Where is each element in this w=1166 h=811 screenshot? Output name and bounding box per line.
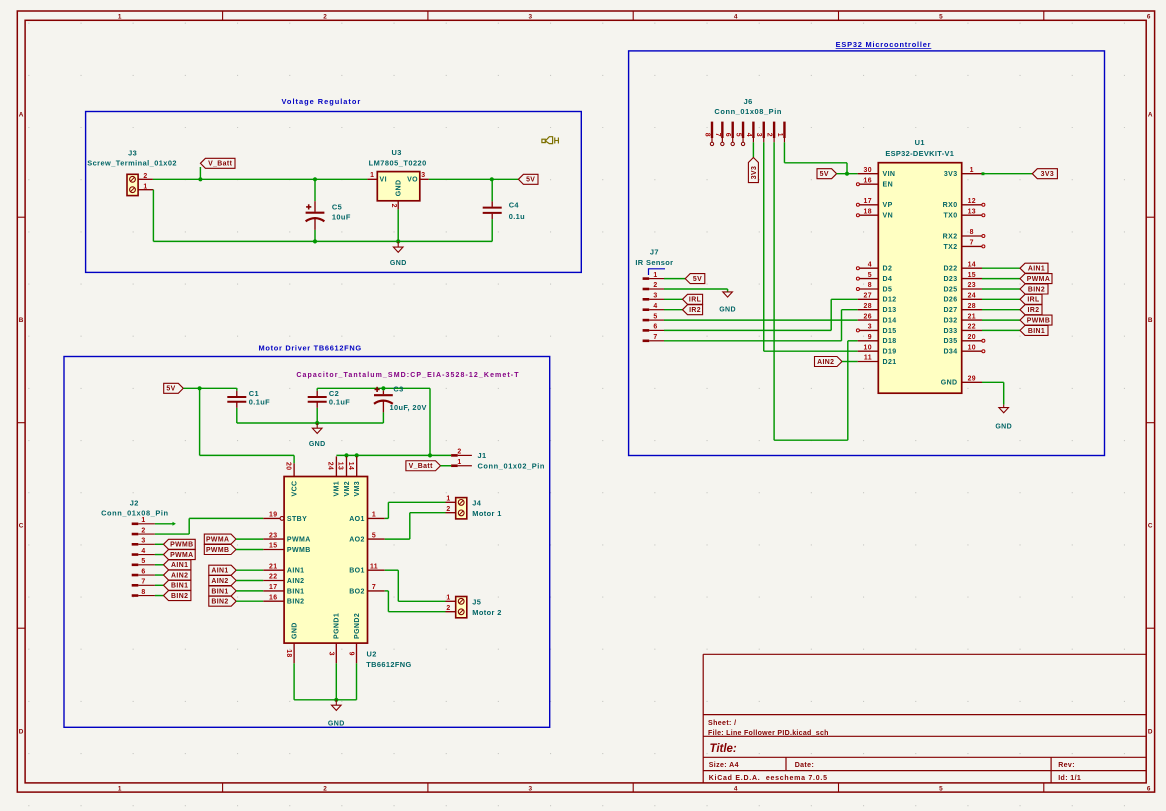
wire VM rail <box>336 454 430 456</box>
wire J7 pin6 to D12 <box>664 299 858 330</box>
svg-text:6: 6 <box>653 324 657 331</box>
svg-text:3V3: 3V3 <box>1041 171 1054 178</box>
svg-text:KiCad E.D.A. eeschema 7.0.5: KiCad E.D.A. eeschema 7.0.5 <box>709 775 828 782</box>
svg-text:Conn_01x08_Pin: Conn_01x08_Pin <box>101 509 169 518</box>
svg-text:2: 2 <box>323 13 327 20</box>
svg-text:TB6612FNG: TB6612FNG <box>366 660 412 669</box>
svg-text:28: 28 <box>864 303 872 310</box>
svg-text:2: 2 <box>141 527 145 534</box>
svg-text:14: 14 <box>347 462 354 470</box>
svg-text:J2: J2 <box>130 498 139 507</box>
svg-text:BIN1: BIN1 <box>287 588 305 595</box>
wire J2 pin3 <box>155 543 164 545</box>
wire AO1 to J4 pin1 <box>385 502 446 518</box>
svg-text:4: 4 <box>734 785 738 792</box>
pin 15 D23 U1 <box>943 272 982 283</box>
svg-text:0.1u: 0.1u <box>509 212 525 221</box>
pin 21 AIN1 U2 <box>263 563 304 574</box>
svg-text:ESP32-DEVKIT-V1: ESP32-DEVKIT-V1 <box>885 149 954 158</box>
svg-text:BIN1: BIN1 <box>1028 328 1045 335</box>
svg-text:1: 1 <box>143 183 147 190</box>
global label AIN1 <box>1020 263 1048 273</box>
svg-text:5: 5 <box>868 272 872 279</box>
svg-text:C5: C5 <box>332 202 342 211</box>
pin 13 VM2 U2 <box>337 456 351 496</box>
capacitor C2 <box>308 388 351 423</box>
power label 3V3 J6 <box>748 158 758 183</box>
svg-text:U3: U3 <box>391 148 401 157</box>
wire J2 pin5 <box>155 564 164 566</box>
svg-text:D26: D26 <box>943 297 957 304</box>
pin 23 PWMA U2 <box>263 532 310 543</box>
wire 5V to VIN <box>837 173 858 175</box>
svg-text:GND: GND <box>291 622 298 639</box>
global label AIN2 mid <box>209 576 236 586</box>
pin 9 D18 U1 <box>858 334 897 345</box>
svg-text:GND: GND <box>395 180 402 197</box>
junction <box>845 172 849 176</box>
pin 15 PWMB U2 <box>263 543 310 554</box>
section box ESP32 Microcontroller <box>629 40 1105 456</box>
svg-text:8: 8 <box>703 133 710 137</box>
svg-text:16: 16 <box>864 177 872 184</box>
svg-text:9: 9 <box>868 334 872 341</box>
svg-text:D: D <box>1148 728 1153 735</box>
wire J2 pin8 <box>155 595 164 597</box>
svg-text:7: 7 <box>372 584 376 591</box>
wire to J1 pin2 <box>430 454 451 456</box>
junction <box>315 421 319 425</box>
svg-text:C: C <box>1148 523 1153 530</box>
svg-text:Id: 1/1: Id: 1/1 <box>1058 775 1081 782</box>
svg-text:Capacitor_Tantalum_SMD:CP_EIA-: Capacitor_Tantalum_SMD:CP_EIA-3528-12_Ke… <box>296 372 519 379</box>
svg-text:2: 2 <box>323 785 327 792</box>
pin 1 AO1 U2 <box>349 512 384 523</box>
svg-text:9: 9 <box>348 652 355 656</box>
svg-text:AIN1: AIN1 <box>287 568 305 575</box>
svg-text:4: 4 <box>141 548 145 555</box>
svg-text:AIN2: AIN2 <box>287 578 305 585</box>
svg-text:C: C <box>19 523 24 530</box>
wire C3 rail down <box>429 388 431 455</box>
wire 3V3 pin <box>984 173 1032 175</box>
svg-text:6: 6 <box>141 568 145 575</box>
svg-text:BIN1: BIN1 <box>211 588 228 595</box>
wire Vbatt rail <box>153 178 368 180</box>
wire U2 gnd rail <box>294 699 356 701</box>
svg-text:3: 3 <box>868 324 872 331</box>
svg-text:17: 17 <box>864 198 872 205</box>
svg-text:5: 5 <box>141 558 145 565</box>
svg-text:3: 3 <box>421 172 425 179</box>
wire J7 pin2 to GND <box>664 289 728 292</box>
wire C2 C3 rail <box>317 387 430 389</box>
wire 5V to C1 <box>183 387 237 389</box>
svg-text:23: 23 <box>968 282 976 289</box>
svg-text:D21: D21 <box>883 359 897 366</box>
svg-text:1: 1 <box>118 785 122 792</box>
wire BO2 to J5 pin2 <box>385 591 446 612</box>
svg-text:VO: VO <box>407 177 418 184</box>
wire J2 pin1 dangling <box>155 522 176 526</box>
svg-text:22: 22 <box>968 324 976 331</box>
svg-text:29: 29 <box>968 376 976 383</box>
wire to BIN2 <box>982 288 1020 290</box>
global label BIN2 mid <box>209 596 236 606</box>
svg-text:Title:: Title: <box>710 743 737 755</box>
title block <box>703 654 1146 783</box>
power label 3V3 U1 <box>1032 169 1057 179</box>
svg-text:B: B <box>1148 317 1153 324</box>
svg-text:IR2: IR2 <box>1028 307 1040 314</box>
svg-text:Size: A4: Size: A4 <box>709 762 739 769</box>
junction <box>396 239 400 243</box>
svg-text:IRL: IRL <box>689 297 701 304</box>
svg-text:11: 11 <box>864 355 872 362</box>
svg-text:TX2: TX2 <box>943 244 957 251</box>
svg-text:26: 26 <box>864 313 872 320</box>
svg-text:VM2: VM2 <box>344 481 351 497</box>
pin 18 GND U2 <box>285 622 298 700</box>
svg-text:D25: D25 <box>943 286 957 293</box>
svg-text:7: 7 <box>141 579 145 586</box>
wire BO1 to J5 pin1 <box>385 570 446 601</box>
power label 5V at VIN <box>817 169 837 179</box>
svg-text:27: 27 <box>864 293 872 300</box>
pin 9 PGND2 U2 <box>348 613 361 700</box>
global label AIN1 mid <box>209 565 236 575</box>
svg-text:GND: GND <box>719 306 736 313</box>
pin 7 TX2 U1 <box>943 240 984 251</box>
wire PWMA to U2 <box>236 538 263 540</box>
junction <box>334 698 338 702</box>
svg-text:10: 10 <box>864 344 872 351</box>
global label V_Batt J1 <box>406 461 441 471</box>
wire J2 pin2 to STBY <box>155 518 263 534</box>
svg-text:GND: GND <box>390 260 407 267</box>
svg-text:PWMA: PWMA <box>170 552 193 559</box>
ground GND U2 <box>328 700 345 728</box>
global label AIN2 at D21 <box>815 357 843 367</box>
svg-text:2: 2 <box>457 449 461 456</box>
svg-text:2: 2 <box>446 605 450 612</box>
svg-text:Motor 2: Motor 2 <box>472 608 502 617</box>
svg-text:Conn_01x02_Pin: Conn_01x02_Pin <box>478 461 546 470</box>
svg-text:1: 1 <box>457 459 461 466</box>
global label PWMB mid <box>204 545 236 555</box>
global label AIN1 J2 <box>164 560 191 570</box>
svg-text:D22: D22 <box>943 266 957 273</box>
svg-text:PWMA: PWMA <box>206 537 229 544</box>
svg-text:AIN2: AIN2 <box>211 578 228 585</box>
connector J3 Screw_Terminal_01x02 <box>87 149 177 196</box>
svg-text:8: 8 <box>868 282 872 289</box>
svg-text:VP: VP <box>883 202 893 209</box>
svg-text:U2: U2 <box>367 650 377 659</box>
svg-text:1: 1 <box>118 13 122 20</box>
svg-text:LM7805_T0220: LM7805_T0220 <box>369 159 427 168</box>
connector J5 Motor 2 <box>446 595 502 618</box>
svg-text:0.1uF: 0.1uF <box>329 397 350 406</box>
svg-text:BIN1: BIN1 <box>171 583 188 590</box>
svg-text:GND: GND <box>328 721 345 728</box>
ground GND caps <box>309 423 326 448</box>
global label PWMA mid <box>204 534 236 544</box>
svg-text:Voltage Regulator: Voltage Regulator <box>282 97 362 106</box>
wire AO2 to J4 pin2 <box>385 513 446 539</box>
global label AIN2 J2 <box>164 570 191 580</box>
svg-text:D27: D27 <box>943 307 957 314</box>
wire to BIN1 <box>982 329 1020 331</box>
global label PWMB J2 <box>164 539 196 549</box>
junction <box>313 177 317 181</box>
svg-text:VM3: VM3 <box>354 481 361 497</box>
wire J7 pin3 <box>664 298 683 300</box>
svg-text:AIN1: AIN1 <box>1028 266 1045 273</box>
svg-text:C4: C4 <box>509 200 520 209</box>
svg-text:1: 1 <box>653 272 657 279</box>
svg-text:TX0: TX0 <box>943 213 957 220</box>
svg-text:D12: D12 <box>883 297 897 304</box>
wire J2 pin7 <box>155 584 164 586</box>
junction <box>381 386 385 390</box>
pin 1 3V3 U1 <box>944 167 982 178</box>
microcontroller U1 ESP32-DEVKIT-V1 <box>878 138 961 393</box>
svg-text:10uF: 10uF <box>332 213 351 222</box>
wire BIN1 to U2 <box>236 590 263 592</box>
global label V_Batt <box>200 158 235 168</box>
svg-text:Motor 1: Motor 1 <box>472 509 502 518</box>
wire J6 pin1 to VIN <box>784 142 847 173</box>
icon DNP marker <box>542 136 560 145</box>
section box Motor Driver TB6612FNG <box>64 344 550 728</box>
global label 5V out <box>518 174 538 184</box>
svg-text:20: 20 <box>285 462 292 470</box>
wire J7 pin1 <box>664 278 685 280</box>
pin 19 STBY U2 <box>263 512 307 523</box>
svg-text:BO1: BO1 <box>349 568 365 575</box>
ground GND J7 <box>719 292 736 313</box>
wire AIN1 to U2 <box>236 569 263 571</box>
pin 7 BO2 U2 <box>349 584 384 595</box>
svg-text:3V3: 3V3 <box>944 171 958 178</box>
svg-text:Conn_01x08_Pin: Conn_01x08_Pin <box>714 107 782 116</box>
svg-text:J5: J5 <box>472 597 481 606</box>
svg-text:3: 3 <box>327 652 334 656</box>
svg-text:D23: D23 <box>943 276 957 283</box>
svg-text:PWMB: PWMB <box>287 547 311 554</box>
svg-text:D19: D19 <box>883 349 897 356</box>
pin 5 AO2 U2 <box>349 532 384 543</box>
svg-text:2: 2 <box>390 204 397 208</box>
pin 28 D27 U1 <box>943 303 982 314</box>
global label BIN2 J2 <box>164 591 191 601</box>
junction <box>198 177 202 181</box>
node dangling square <box>982 172 985 175</box>
pin 28 D13 U1 <box>858 303 897 314</box>
svg-text:B: B <box>19 317 24 324</box>
svg-text:PGND1: PGND1 <box>334 613 341 639</box>
pin 11 BO1 U2 <box>349 563 384 574</box>
pin 8 RX2 U1 <box>943 229 985 240</box>
capacitor C4 <box>483 179 525 241</box>
svg-text:VIN: VIN <box>883 171 896 178</box>
svg-text:30: 30 <box>864 167 872 174</box>
svg-text:A: A <box>19 111 24 118</box>
junction <box>428 453 432 457</box>
svg-text:3: 3 <box>529 13 533 20</box>
svg-text:7: 7 <box>653 334 657 341</box>
svg-text:13: 13 <box>337 462 344 470</box>
svg-text:J1: J1 <box>478 451 487 460</box>
connector J7 IR Sensor <box>635 247 673 341</box>
pin 23 D25 U1 <box>943 282 982 293</box>
section box Voltage Regulator <box>86 97 582 273</box>
svg-text:STBY: STBY <box>287 516 307 523</box>
svg-text:15: 15 <box>269 543 277 550</box>
svg-text:IR Sensor: IR Sensor <box>635 258 673 267</box>
svg-text:VN: VN <box>883 213 894 220</box>
pin 22 AIN2 U2 <box>263 574 304 585</box>
ground GND U1 <box>995 405 1012 431</box>
regulator U3 LM7805_T0220 <box>367 148 428 209</box>
wire to AIN1 <box>982 267 1020 269</box>
svg-text:21: 21 <box>269 563 277 570</box>
svg-text:D4: D4 <box>883 276 893 283</box>
svg-text:1: 1 <box>446 496 450 503</box>
svg-text:5V: 5V <box>693 276 702 283</box>
wire AIN2 to U2 <box>236 580 263 582</box>
svg-text:D15: D15 <box>883 328 897 335</box>
svg-text:13: 13 <box>968 208 976 215</box>
wire J7 pin4 <box>664 309 683 311</box>
wire J7 pin5 to D14 <box>664 319 858 321</box>
svg-text:5: 5 <box>653 313 657 320</box>
junction <box>490 177 494 181</box>
svg-text:7: 7 <box>970 240 974 247</box>
svg-text:17: 17 <box>269 584 277 591</box>
svg-text:2: 2 <box>766 133 773 137</box>
svg-text:PGND2: PGND2 <box>354 613 361 639</box>
svg-text:0.1uF: 0.1uF <box>249 397 270 406</box>
wire J2 pin4 <box>155 554 164 556</box>
svg-text:4: 4 <box>653 303 657 310</box>
pin 13 TX0 U1 <box>943 208 984 219</box>
svg-text:5V: 5V <box>820 171 829 178</box>
svg-text:24: 24 <box>327 462 334 470</box>
pin 11 D21 U1 <box>858 355 897 366</box>
wire to PWMA <box>982 278 1020 280</box>
wire J6 pin3 to D19 <box>764 142 858 351</box>
wire J7 pin7 to D13 <box>664 310 858 341</box>
wire U1 GND <box>982 382 1004 404</box>
wire U3 gnd down <box>397 209 399 241</box>
svg-text:1: 1 <box>370 172 374 179</box>
global label BIN2 <box>1020 284 1048 294</box>
wire J2 pin6 <box>155 574 164 576</box>
pin 20 VCC U2 <box>285 455 299 496</box>
svg-text:H: H <box>554 136 560 145</box>
global label IR2 <box>683 305 703 315</box>
pin 3 D15 U1 <box>856 324 896 335</box>
svg-text:U1: U1 <box>915 138 925 147</box>
svg-text:19: 19 <box>269 512 277 519</box>
svg-text:15: 15 <box>968 272 976 279</box>
capacitor C5 <box>306 179 351 241</box>
svg-text:V_Batt: V_Batt <box>409 463 434 470</box>
svg-text:D: D <box>19 728 24 735</box>
svg-text:D35: D35 <box>943 338 957 345</box>
svg-text:14: 14 <box>968 261 976 268</box>
wire to IRL <box>982 298 1020 300</box>
pin 8 D5 U1 <box>856 282 892 293</box>
global label IRL <box>683 294 703 304</box>
svg-text:VCC: VCC <box>291 481 298 497</box>
svg-text:18: 18 <box>864 208 872 215</box>
svg-text:3: 3 <box>529 785 533 792</box>
svg-text:AIN2: AIN2 <box>817 359 834 366</box>
svg-text:File: Line Follower PID.kicad_: File: Line Follower PID.kicad_sch <box>708 730 829 737</box>
svg-text:PWMB: PWMB <box>170 542 193 549</box>
global label BIN1 J2 <box>164 580 191 590</box>
wire to PWMB <box>982 319 1020 321</box>
wire J3 pin1 down <box>152 190 154 242</box>
svg-text:4: 4 <box>745 133 752 137</box>
pin 5 D4 U1 <box>856 272 892 283</box>
pin 20 D35 U1 <box>943 334 984 345</box>
pin 27 D12 U1 <box>858 293 897 304</box>
svg-text:BIN2: BIN2 <box>171 593 188 600</box>
svg-text:24: 24 <box>968 293 976 300</box>
svg-text:C3: C3 <box>393 385 403 394</box>
pin 16 BIN2 U2 <box>263 594 304 605</box>
svg-text:6: 6 <box>1147 13 1151 20</box>
global label PWMA J2 <box>164 550 196 560</box>
svg-text:3: 3 <box>653 293 657 300</box>
global label IR2 <box>1020 305 1042 315</box>
wire J6 pin4 to 3V3 <box>752 142 754 157</box>
svg-text:11: 11 <box>370 563 378 570</box>
pin 24 VM1 U2 <box>327 456 341 496</box>
svg-text:2: 2 <box>653 282 657 289</box>
svg-text:22: 22 <box>269 574 277 581</box>
connector J6 Conn_01x08_Pin <box>703 97 784 146</box>
wire J6 pin2 down <box>774 142 858 440</box>
capacitor C1 <box>227 388 270 423</box>
svg-text:10uF, 20V: 10uF, 20V <box>390 403 427 412</box>
connector J4 Motor 1 <box>446 496 502 519</box>
svg-text:AO2: AO2 <box>349 537 365 544</box>
motor driver U2 TB6612FNG <box>284 477 412 670</box>
svg-text:3: 3 <box>755 133 762 137</box>
pin 21 D32 U1 <box>943 313 982 324</box>
global label PWMA <box>1020 274 1052 284</box>
svg-text:V_Batt: V_Batt <box>208 161 233 168</box>
svg-text:Date:: Date: <box>795 762 815 769</box>
svg-text:IRL: IRL <box>1027 297 1039 304</box>
pin 24 D26 U1 <box>943 293 982 304</box>
svg-text:D14: D14 <box>883 318 897 325</box>
pin 29 GND U1 <box>941 376 982 387</box>
wire to IR2 <box>982 309 1020 311</box>
capacitor C3 tantalum <box>374 385 427 423</box>
svg-text:3: 3 <box>141 538 145 545</box>
junction <box>355 453 359 457</box>
svg-text:1: 1 <box>372 512 376 519</box>
pin 12 RX0 U1 <box>943 198 985 209</box>
svg-text:D34: D34 <box>943 349 957 356</box>
svg-text:BIN2: BIN2 <box>1028 286 1045 293</box>
